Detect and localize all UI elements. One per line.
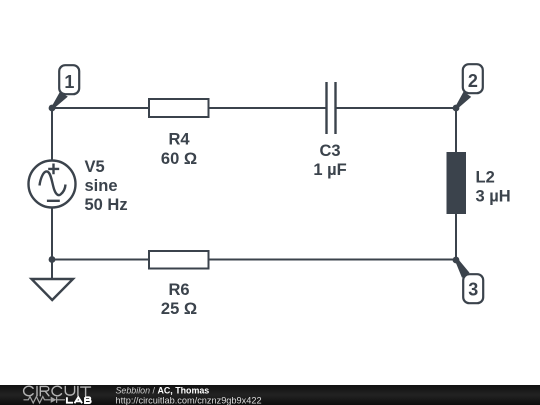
wire left vertical bottom (V5 to ground node) (51, 207, 53, 260)
CircuitLab logo wordmark LAB (67, 397, 91, 403)
svg-text:3 µH: 3 µH (476, 187, 511, 205)
svg-text:R6: R6 (168, 281, 189, 299)
svg-text:60 Ω: 60 Ω (161, 150, 197, 168)
junction node top-left (49, 105, 56, 112)
wire bottom right horizontal (node3 to R6) (209, 259, 457, 261)
wire right vertical top (node2 to L2) (455, 108, 457, 152)
node 2 flag (456, 64, 483, 109)
CircuitLab logo schematic glyph (resistor + diode) (24, 397, 66, 403)
capacitor C3 (313, 82, 346, 179)
wire right vertical bottom (L2 to node3) (455, 214, 457, 260)
footer attribution text (116, 386, 262, 405)
resistor R6 (149, 251, 209, 318)
svg-text:Sebbilon / AC, Thomas: Sebbilon / AC, Thomas (116, 386, 210, 396)
svg-text:2: 2 (468, 71, 478, 91)
wire C3 to node2 (336, 107, 456, 109)
junction node top-right (453, 105, 460, 112)
svg-text:3: 3 (468, 280, 478, 300)
svg-text:R4: R4 (168, 131, 190, 149)
svg-text:L2: L2 (476, 168, 495, 186)
ground (32, 279, 74, 300)
wire ground stub (51, 260, 53, 280)
svg-text:25 Ω: 25 Ω (161, 300, 197, 318)
junction node bottom-right (453, 257, 460, 264)
wire top-left horizontal (node1 to R4) (52, 107, 149, 109)
wire bottom left horizontal (R6 to ground node) (52, 259, 149, 261)
inductor L2 (447, 152, 511, 214)
resistor R4 (149, 99, 209, 168)
svg-text:1 µF: 1 µF (313, 161, 346, 179)
wire R4 to C3 (209, 107, 327, 109)
CircuitLab logo wordmark CIRCUIT (24, 386, 91, 396)
voltage source V5 (29, 158, 128, 214)
node 3 flag (455, 259, 483, 304)
svg-text:1: 1 (64, 72, 74, 92)
svg-text:50 Hz: 50 Hz (85, 196, 128, 214)
svg-text:http://circuitlab.com/cnznz9gb: http://circuitlab.com/cnznz9gb9x422 (116, 396, 262, 405)
svg-text:V5: V5 (85, 158, 105, 176)
svg-text:C3: C3 (319, 142, 340, 160)
wire left vertical top (node1 to V5) (51, 108, 53, 161)
node 1 flag (52, 65, 80, 109)
junction node bottom-left (ground node) (49, 256, 56, 263)
svg-text:sine: sine (85, 177, 118, 195)
